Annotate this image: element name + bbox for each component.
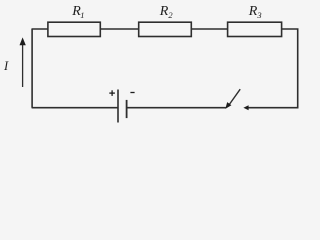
svg-text:2: 2	[168, 10, 173, 20]
wire: right vertical	[297, 29, 299, 109]
resistor R1	[48, 22, 100, 36]
wire: left vertical	[31, 29, 33, 108]
svg-text:1: 1	[80, 10, 84, 20]
switch blade arrowhead (pointing down-left to contact)	[225, 102, 231, 109]
svg-text:R: R	[159, 4, 169, 19]
wire: top segment from left corner to R1	[32, 28, 48, 30]
svg-text:I: I	[3, 59, 9, 73]
resistor R2	[139, 22, 192, 36]
switch blade	[229, 89, 240, 104]
resistor R3	[228, 22, 282, 36]
svg-text:3: 3	[256, 10, 261, 20]
battery negative plate (short)	[126, 100, 128, 118]
switch contact arrowhead (right, pointing left)	[243, 105, 248, 110]
wire: bottom segment battery to switch	[127, 107, 227, 109]
svg-text:R: R	[248, 4, 258, 19]
battery positive plate (long)	[117, 90, 119, 123]
wire: bottom left segment (corner to battery)	[32, 107, 118, 109]
wire: between R1 and R2	[100, 28, 138, 30]
wire: between R2 and R3	[191, 28, 227, 30]
current arrow I	[22, 44, 24, 87]
wire: bottom right segment (switch to right corner)	[248, 107, 298, 109]
battery + sign	[109, 92, 115, 94]
battery - sign	[130, 92, 134, 94]
wire: from R3 to top-right corner	[282, 28, 299, 30]
